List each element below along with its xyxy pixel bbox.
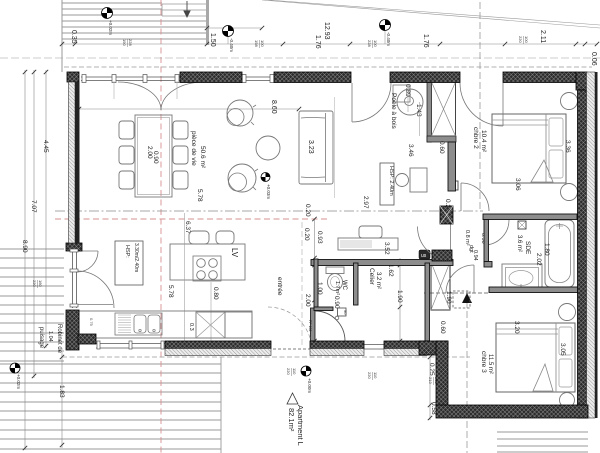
island stools	[189, 231, 209, 244]
svg-text:0.06: 0.06	[590, 52, 597, 66]
wall block dgt	[440, 206, 453, 224]
svg-text:HSP: 2.40m: HSP: 2.40m	[388, 166, 394, 196]
partition wall sde west	[484, 220, 489, 262]
svg-text:HSP:: HSP:	[124, 245, 130, 258]
front door leaf arc	[315, 311, 345, 341]
svg-text:3.6 m²: 3.6 m²	[516, 235, 522, 252]
svg-text:LV: LV	[230, 248, 239, 258]
west door leaf lower	[78, 304, 113, 306]
switch boxes hall	[449, 181, 458, 190]
svg-text:3.36: 3.36	[564, 140, 571, 153]
switch box sde	[518, 221, 526, 229]
svg-text:1.43: 1.43	[415, 104, 422, 117]
front door jamb	[311, 308, 316, 341]
window north 2	[242, 76, 274, 78]
svg-text:0.89: 0.89	[404, 84, 411, 97]
svg-text:0.3: 0.3	[188, 323, 194, 331]
svg-text:chbre 2: chbre 2	[472, 127, 479, 149]
red axis horizontal	[55, 218, 330, 220]
french doors living north	[118, 82, 161, 110]
window tag 4	[518, 36, 529, 44]
svg-text:0.90: 0.90	[333, 296, 340, 309]
bathtub	[545, 220, 574, 287]
axis vertical dashed right	[479, 2, 481, 211]
wc door handle circle	[335, 316, 339, 320]
svg-text:+0.03m: +0.03m	[266, 184, 271, 199]
svg-text:2.00: 2.00	[146, 146, 153, 159]
water heater dashed	[453, 291, 470, 308]
svg-text:228: 228	[128, 39, 133, 46]
dimension line left 4.45	[45, 70, 47, 348]
svg-text:pièce de vie: pièce de vie	[190, 131, 197, 166]
svg-text:WC: WC	[341, 280, 347, 291]
level marker +0.00m	[301, 366, 311, 376]
svg-text:-0.40m: -0.40m	[229, 38, 234, 52]
red axis vertical	[160, 0, 162, 453]
partition wall sde south	[489, 287, 583, 293]
door dgt to chbre2	[460, 183, 462, 211]
front door dashed swing	[268, 307, 312, 351]
wall hatch block hall	[432, 250, 452, 261]
dim chain 0.80 line	[210, 282, 212, 341]
bedside table chbre3 bottom	[560, 393, 575, 408]
svg-text:+0.02m: +0.02m	[108, 20, 113, 35]
west glazed door	[72, 251, 74, 308]
level marker -0.40m a	[223, 26, 234, 37]
door chbre3	[473, 265, 475, 293]
svg-text:chbre 3: chbre 3	[480, 351, 487, 373]
svg-text:100: 100	[260, 40, 265, 47]
exterior steps top	[162, 4, 206, 16]
svg-text:Apartment L: Apartment L	[296, 405, 305, 446]
level marker -0.40m b	[380, 20, 391, 31]
exterior wall corner NE	[576, 72, 587, 90]
west wall window marks	[69, 92, 77, 95]
sofa	[299, 111, 333, 184]
exterior wall north seg1	[180, 72, 242, 83]
level marker +0.03m living	[261, 173, 270, 182]
svg-text:0.20: 0.20	[303, 228, 310, 241]
axis vertical dashed kitchen	[301, 222, 303, 345]
bed chbre2	[492, 114, 566, 183]
svg-text:0.94: 0.94	[472, 250, 478, 261]
bed chbre3	[496, 323, 575, 392]
plot boundary diagonal line	[268, 0, 600, 25]
svg-text:1.80: 1.80	[543, 243, 550, 256]
door poele room north	[351, 83, 353, 122]
fridge	[225, 312, 252, 338]
kitchen counter band	[79, 311, 252, 338]
svg-text:+0.02m: +0.02m	[16, 374, 21, 389]
armchair 2	[228, 164, 256, 192]
svg-text:190: 190	[122, 39, 127, 46]
hob	[193, 256, 221, 281]
door chbre2 north	[502, 83, 504, 126]
svg-text:1.76: 1.76	[314, 35, 321, 49]
svg-text:0.79: 0.79	[89, 318, 94, 327]
door hall from living	[450, 224, 452, 261]
steps direction arrow	[184, 1, 190, 17]
axis vertical dashed chbre3	[466, 291, 468, 453]
svg-text:10.4 m²: 10.4 m²	[480, 130, 487, 153]
svg-text:228: 228	[367, 40, 372, 47]
svg-text:entrée: entrée	[276, 277, 283, 296]
west door leaf upper	[78, 250, 98, 252]
svg-text:SDE: SDE	[524, 241, 531, 255]
window tag 2	[254, 40, 265, 48]
window north 1	[81, 76, 180, 78]
exterior wall corner NW	[67, 72, 79, 82]
terrace deck boards bottom-right	[497, 432, 588, 452]
level marker +0.02m top	[102, 8, 113, 19]
dimension line left 1.83	[61, 352, 63, 448]
roof overhang dashed line top	[64, 66, 592, 68]
dimension secondary dash top	[0, 57, 600, 59]
dim chain chbre3 left	[429, 356, 431, 420]
dining table	[135, 115, 172, 197]
window tag 1	[122, 39, 133, 47]
svg-text:3.46: 3.46	[407, 144, 414, 157]
svg-text:160: 160	[38, 280, 43, 287]
dim chain celier vertical	[399, 258, 401, 341]
exterior wall south seg1	[165, 341, 271, 349]
terrace deck boards top-left	[62, 3, 206, 39]
svg-text:100: 100	[373, 40, 378, 47]
svg-text:2.00: 2.00	[304, 294, 311, 307]
dim line 8.60 horizontal	[79, 108, 299, 110]
desk	[410, 168, 427, 192]
exterior wall corner SW jog	[78, 334, 96, 344]
svg-text:110: 110	[373, 372, 378, 379]
svg-text:3.30m/2.40m: 3.30m/2.40m	[133, 243, 139, 272]
window tag left	[32, 280, 43, 288]
dimension line left 8.90	[24, 70, 26, 450]
svg-text:3.05: 3.05	[559, 343, 566, 356]
kitchen island	[170, 244, 245, 280]
exterior wall south seg3	[384, 341, 427, 349]
exterior wall chbre3 south	[436, 405, 588, 418]
dim chain 6.37 line	[184, 213, 186, 341]
partition wall wc left	[314, 259, 318, 307]
svg-text:11.5 m²: 11.5 m²	[487, 354, 493, 374]
roof overhang dashed bottom	[62, 356, 470, 358]
svg-text:5.78: 5.78	[167, 285, 174, 298]
sink unit	[115, 313, 162, 335]
svg-text:90: 90	[343, 310, 348, 315]
window tag chbre3	[428, 377, 439, 385]
svg-text:82.1m²: 82.1m²	[287, 408, 296, 432]
armchair 1	[227, 100, 253, 126]
svg-text:-0.40m: -0.40m	[386, 32, 391, 46]
exterior wall east	[578, 90, 587, 418]
exterior wall chbre3 west	[436, 341, 448, 408]
svg-text:+0.00m: +0.00m	[307, 378, 312, 393]
terrace deck boards left band	[0, 249, 64, 361]
bedside table chbre2 bottom	[561, 184, 578, 201]
section line horizontal	[55, 210, 483, 212]
front door tag 90	[338, 308, 347, 316]
svg-text:us: us	[421, 253, 427, 259]
small appliance	[359, 226, 382, 238]
dining chairs left	[119, 121, 134, 139]
partition wall poele-chbre2	[448, 142, 456, 191]
svg-text:5.78: 5.78	[196, 189, 203, 202]
svg-text:4.45: 4.45	[42, 140, 49, 153]
deck right edge thick	[206, 0, 209, 45]
svg-text:3.2 m²: 3.2 m²	[375, 272, 381, 289]
svg-text:2.11: 2.11	[539, 30, 546, 43]
HSP box poele	[380, 163, 394, 205]
window tag bottom a	[286, 368, 297, 376]
svg-text:110: 110	[292, 368, 297, 375]
svg-text:7.07: 7.07	[30, 200, 37, 213]
svg-text:213: 213	[428, 377, 433, 384]
svg-text:Poele à bois: Poele à bois	[390, 93, 397, 130]
chimney duct	[427, 82, 432, 142]
svg-text:1.83: 1.83	[58, 385, 65, 398]
svg-text:1.90: 1.90	[396, 290, 403, 303]
exterior wall north seg2	[274, 72, 351, 83]
svg-text:puisage: puisage	[38, 327, 44, 349]
partition wall hall horizontal	[311, 260, 453, 266]
door sde	[484, 220, 509, 245]
exterior wall corner SW	[66, 310, 79, 350]
arrow up entrance marker	[462, 293, 472, 303]
exterior wall north seg3	[390, 72, 460, 83]
bedside table chbre3 top	[559, 304, 576, 321]
svg-text:3.20: 3.20	[513, 321, 520, 334]
svg-text:2.97: 2.97	[362, 196, 369, 209]
svg-text:0.90: 0.90	[152, 151, 159, 164]
window tag 3	[367, 40, 378, 48]
front door sill dashed	[268, 348, 312, 350]
partition wall celier right	[425, 263, 430, 341]
svg-text:8.90: 8.90	[21, 240, 28, 253]
closet with X	[431, 262, 450, 310]
svg-text:0.60: 0.60	[438, 141, 445, 154]
svg-text:220: 220	[518, 36, 523, 43]
washbasin	[502, 264, 542, 288]
kitchen back counter	[338, 238, 398, 250]
svg-text:0.25: 0.25	[428, 363, 435, 376]
partition wall chbre2 south	[483, 214, 577, 220]
svg-text:1.76: 1.76	[422, 34, 429, 48]
svg-text:0.93: 0.93	[316, 231, 323, 244]
side table circle	[256, 136, 280, 160]
partition wall wc-celier	[354, 263, 359, 305]
dimension line left 7.07	[33, 70, 35, 378]
svg-text:0.35: 0.35	[70, 30, 77, 44]
toilet	[326, 267, 344, 274]
exterior wall south seg2	[310, 341, 364, 349]
dashed line chbre3 top	[424, 292, 490, 294]
partition wall wc bottom	[314, 307, 333, 311]
svg-text:0.60: 0.60	[439, 321, 446, 334]
svg-text:3.23: 3.23	[307, 140, 314, 154]
window south kitchen	[96, 343, 165, 345]
svg-text:220: 220	[32, 280, 37, 287]
svg-text:2.02: 2.02	[535, 253, 542, 266]
svg-text:220: 220	[286, 368, 291, 375]
window south entrance	[364, 344, 384, 346]
svg-text:Robinet de: Robinet de	[56, 324, 62, 354]
svg-text:0.8 m²: 0.8 m²	[464, 230, 470, 246]
dimension line top main	[62, 43, 598, 45]
exterior wall west	[69, 82, 76, 243]
svg-text:0.80: 0.80	[212, 287, 219, 300]
svg-text:12.93: 12.93	[323, 22, 330, 40]
bedside table chbre2 top	[561, 93, 578, 110]
svg-text:PP 102: PP 102	[308, 320, 312, 331]
svg-text:220: 220	[367, 372, 372, 379]
exterior wall jog entrance-chbre3	[419, 341, 448, 355]
svg-text:Celier: Celier	[368, 268, 375, 286]
svg-text:100: 100	[524, 36, 529, 43]
dim chain wc vertical	[314, 219, 316, 341]
west wall block	[66, 243, 82, 251]
svg-text:1.7m²: 1.7m²	[334, 281, 340, 295]
exterior wall north seg4	[503, 72, 576, 83]
dishwasher	[196, 312, 225, 338]
svg-text:3.52: 3.52	[383, 242, 390, 255]
dimension line 1.50	[207, 27, 262, 29]
outlet box us	[419, 250, 430, 259]
terrace deck boards bottom	[0, 364, 221, 449]
svg-text:198: 198	[254, 40, 259, 47]
svg-text:3.06: 3.06	[514, 178, 521, 191]
svg-text:1.62: 1.62	[387, 264, 394, 277]
triangle apartment symbol	[287, 393, 298, 404]
svg-text:0.20: 0.20	[304, 204, 311, 217]
bottom deck right edge	[220, 357, 222, 453]
svg-text:1.50: 1.50	[209, 33, 216, 47]
svg-text:1.04: 1.04	[47, 331, 53, 342]
HSP box living	[115, 241, 143, 285]
svg-text:50.6 m²: 50.6 m²	[199, 146, 206, 169]
wood stove	[393, 85, 410, 102]
level marker +0.02m bottom-left	[10, 363, 20, 373]
svg-text:8.60: 8.60	[270, 100, 277, 114]
window tag bottom b	[367, 372, 378, 380]
dining chairs right	[173, 121, 188, 139]
deck left edge line	[61, 0, 63, 72]
